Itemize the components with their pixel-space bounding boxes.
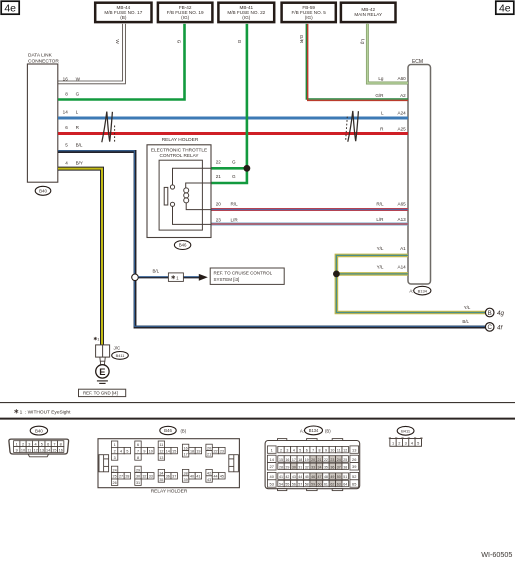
svg-text:G: G: [232, 174, 236, 179]
svg-text:19: 19: [305, 458, 309, 462]
svg-text:9: 9: [325, 449, 327, 453]
svg-text:25: 25: [113, 475, 117, 479]
svg-text:21: 21: [318, 458, 322, 462]
svg-text:30: 30: [292, 465, 296, 469]
svg-text:2: 2: [114, 450, 116, 454]
svg-text:16: 16: [285, 458, 289, 462]
svg-text:42: 42: [207, 472, 211, 476]
svg-text:Y/L: Y/L: [464, 305, 471, 310]
wire B/L branch to cruise control ref: [138, 276, 199, 279]
svg-text:31: 31: [136, 481, 140, 485]
svg-text:21: 21: [207, 453, 211, 457]
svg-text:WI-60505: WI-60505: [481, 550, 512, 559]
svg-text:40: 40: [190, 475, 194, 479]
svg-text:38: 38: [343, 465, 347, 469]
svg-text:2: 2: [22, 443, 24, 447]
svg-text:18: 18: [190, 450, 194, 454]
svg-text:Lg: Lg: [361, 39, 366, 45]
svg-text:29: 29: [285, 465, 289, 469]
svg-text:A:: A:: [409, 289, 413, 294]
grid reference 4e (top-right): [496, 1, 514, 14]
connector view B40 oval: [30, 426, 47, 435]
svg-text:11: 11: [159, 443, 163, 447]
fuse box FB-42: [158, 3, 213, 22]
svg-text:28: 28: [279, 465, 283, 469]
svg-text:A65: A65: [398, 202, 407, 207]
connector view B46 oval: [160, 426, 187, 434]
svg-text:51: 51: [343, 475, 347, 479]
connector view B46 body: [98, 439, 239, 488]
svg-text:(IG): (IG): [181, 15, 189, 20]
vertical label G (MB-41): [237, 40, 242, 44]
svg-text:A13: A13: [398, 217, 407, 222]
connector view B46 cavity clusters row 1: [111, 441, 225, 460]
relay inner box U1: [159, 160, 202, 230]
svg-text:13: 13: [352, 448, 356, 453]
svg-text:5: 5: [417, 441, 419, 446]
svg-text:8: 8: [137, 456, 139, 460]
svg-text:65: 65: [352, 481, 356, 486]
ground neck: [100, 357, 106, 365]
svg-text:L/R: L/R: [231, 217, 239, 222]
svg-text:16: 16: [184, 446, 188, 450]
svg-text:REF. TO GND [i4]: REF. TO GND [i4]: [83, 391, 118, 396]
svg-text:L/R: L/R: [376, 217, 384, 222]
svg-text:L: L: [76, 109, 79, 114]
svg-text:12: 12: [33, 448, 37, 452]
svg-text:(IG): (IG): [242, 15, 250, 20]
footnote marker box *1: [168, 273, 183, 282]
svg-text:4: 4: [35, 443, 37, 447]
svg-text:4: 4: [120, 450, 122, 454]
svg-text:52: 52: [352, 474, 356, 479]
svg-text:R/L: R/L: [231, 202, 239, 207]
svg-text:23: 23: [220, 450, 224, 454]
separator line (upper): [0, 402, 515, 404]
wire R : DLC pin 6 to ECM A25: [58, 132, 408, 135]
svg-text:8: 8: [60, 443, 62, 447]
svg-text:(IG): (IG): [305, 15, 313, 20]
connector ref oval B411: [112, 352, 129, 360]
svg-text:16: 16: [63, 77, 69, 82]
svg-text:2: 2: [398, 441, 400, 446]
svg-text:20: 20: [216, 202, 222, 207]
svg-text:RELAY HOLDER: RELAY HOLDER: [151, 489, 188, 495]
svg-text:4: 4: [293, 449, 295, 453]
wire B/Y : DLC pin 4 to joint connector B411: [58, 169, 102, 345]
svg-text:2: 2: [280, 449, 282, 453]
ref box: cruise control system: [210, 268, 284, 284]
svg-text:39: 39: [184, 478, 188, 482]
svg-text:A60: A60: [398, 76, 407, 81]
svg-text:G: G: [176, 40, 181, 44]
ECM connector ref A: B134: [409, 286, 431, 295]
svg-text:J/C: J/C: [114, 346, 122, 351]
connector view B40 cells 1-16: [14, 441, 64, 453]
svg-text:56: 56: [292, 483, 296, 487]
svg-text:3: 3: [286, 449, 288, 453]
svg-text:17: 17: [292, 458, 296, 462]
svg-text:14: 14: [46, 448, 50, 452]
svg-text:24: 24: [113, 468, 117, 472]
svg-text:10: 10: [149, 450, 153, 454]
svg-text:4e: 4e: [4, 3, 16, 15]
joint connector J/C B411: [96, 345, 110, 357]
svg-text:A2: A2: [400, 93, 406, 98]
svg-text:22: 22: [324, 458, 328, 462]
junction (open) on B/L wire: [132, 274, 139, 281]
svg-text:5: 5: [299, 449, 301, 453]
svg-text:22: 22: [216, 160, 222, 165]
svg-text:G/R: G/R: [375, 93, 384, 98]
svg-text:12: 12: [159, 450, 163, 454]
svg-text:(B): (B): [325, 429, 331, 434]
ref box: ground: [79, 389, 126, 396]
terminal B / 4g: [485, 308, 504, 317]
svg-text:13: 13: [40, 448, 44, 452]
relay armature bar: [164, 187, 168, 205]
svg-text:B/L: B/L: [462, 319, 469, 324]
svg-text:7: 7: [312, 449, 314, 453]
svg-text:A14: A14: [398, 265, 407, 270]
connector view B40 body: [9, 439, 69, 457]
svg-text:15: 15: [172, 450, 176, 454]
svg-text:10: 10: [21, 448, 25, 452]
svg-text:17: 17: [184, 453, 188, 457]
electronic throttle control relay label: [151, 147, 207, 158]
svg-text:11: 11: [337, 449, 341, 453]
svg-text:(B): (B): [120, 15, 127, 20]
fuse box MB-41: [218, 3, 274, 22]
svg-text:9: 9: [16, 448, 18, 452]
svg-text:A25: A25: [398, 126, 407, 131]
ECM pin number / wire colour labels: [375, 76, 406, 269]
svg-text:7: 7: [53, 443, 55, 447]
fuse box FB-59: [282, 3, 336, 22]
svg-text:A:: A:: [300, 429, 304, 434]
svg-text:DATA LINK: DATA LINK: [28, 53, 53, 59]
data link connector (label): [28, 53, 59, 65]
separator line (lower, heavy): [0, 418, 515, 420]
svg-text:6: 6: [47, 443, 49, 447]
svg-text:28: 28: [125, 475, 129, 479]
svg-text:4f: 4f: [497, 324, 503, 331]
svg-text:B/L: B/L: [153, 268, 160, 273]
svg-text:64: 64: [343, 483, 347, 487]
wire L : DLC pin 14 to ECM A24: [58, 117, 408, 120]
svg-text:11: 11: [27, 448, 31, 452]
svg-text:3: 3: [114, 456, 116, 460]
svg-text:27: 27: [119, 475, 123, 479]
ECM body: [408, 65, 431, 285]
vertical label Lg: [361, 39, 366, 45]
wire G : FB-42 to DLC pin 8: [58, 24, 185, 100]
connector view B411 oval: [397, 426, 414, 435]
svg-text:L: L: [381, 111, 384, 116]
svg-text:32: 32: [305, 465, 309, 469]
ground hatching: [97, 381, 108, 384]
svg-text:14: 14: [63, 109, 69, 114]
svg-text:35: 35: [159, 478, 163, 482]
svg-text:49: 49: [330, 475, 334, 479]
svg-text:44: 44: [298, 475, 302, 479]
svg-text:(B): (B): [181, 428, 187, 433]
svg-text:45: 45: [305, 475, 309, 479]
twisted-pair symbol (left, on L and R): [102, 112, 115, 143]
svg-text:23: 23: [330, 458, 334, 462]
data link connector body B40: [27, 64, 57, 182]
svg-text:54: 54: [279, 483, 283, 487]
svg-text:8: 8: [65, 91, 68, 96]
svg-text:57: 57: [298, 483, 302, 487]
svg-text:41: 41: [279, 475, 283, 479]
fuse box MB-42: [341, 3, 396, 22]
svg-text:27: 27: [270, 464, 274, 469]
twisted-pair symbol (right, on L and R): [346, 111, 359, 142]
svg-text:Lg: Lg: [378, 76, 384, 81]
svg-text:18: 18: [298, 458, 302, 462]
relay coil (pins 21-20): [184, 183, 211, 210]
DLC pin number / wire colour labels: [63, 77, 83, 166]
svg-text:43: 43: [207, 478, 211, 482]
svg-text:6: 6: [137, 443, 139, 447]
fuse box MB-44: [95, 3, 151, 22]
vertical label G (FB-42): [176, 40, 181, 44]
svg-text:A1: A1: [400, 246, 406, 251]
svg-text:55: 55: [285, 483, 289, 487]
wire L/R : relay pin 23 to ECM A13: [211, 223, 408, 226]
connector view B134 body with tabs: [265, 439, 360, 491]
relay pin labels: [216, 160, 239, 223]
svg-text:15: 15: [52, 448, 56, 452]
svg-text:35: 35: [324, 465, 328, 469]
svg-text:12: 12: [343, 449, 347, 453]
svg-text:CONTROL RELAY: CONTROL RELAY: [159, 153, 199, 158]
svg-text:R: R: [76, 125, 80, 130]
svg-text:33: 33: [149, 475, 153, 479]
svg-text:1: 1: [114, 443, 116, 447]
connector view B411 body: [389, 438, 422, 446]
svg-text:45: 45: [220, 475, 224, 479]
svg-text:16: 16: [59, 448, 63, 452]
svg-text:29: 29: [136, 468, 140, 472]
svg-text:4g: 4g: [497, 310, 504, 317]
ground E symbol: [96, 365, 109, 378]
svg-text:5: 5: [65, 142, 68, 147]
svg-text:1: 1: [392, 441, 394, 446]
svg-text:59: 59: [311, 483, 315, 487]
svg-text:43: 43: [292, 475, 296, 479]
svg-text:B134: B134: [418, 288, 428, 293]
footnote: *1 WITHOUT EyeSight: [14, 409, 71, 415]
svg-text:61: 61: [324, 483, 328, 487]
svg-text:13: 13: [159, 456, 163, 460]
svg-text:34: 34: [159, 472, 163, 476]
vertical label G/R: [299, 35, 304, 44]
svg-text:ELECTRONIC THROTTLE: ELECTRONIC THROTTLE: [151, 147, 207, 152]
svg-text:48: 48: [324, 475, 328, 479]
svg-text:9: 9: [143, 450, 145, 454]
connector view B134 middle cavities: [278, 446, 349, 486]
svg-text:36: 36: [330, 465, 334, 469]
connector view B134 side cavities: [267, 446, 358, 487]
svg-text:37: 37: [337, 465, 341, 469]
svg-text:14: 14: [166, 450, 170, 454]
relay contact (pins 22-23): [170, 168, 211, 224]
svg-text:50: 50: [337, 475, 341, 479]
svg-text:42: 42: [285, 475, 289, 479]
svg-text:22: 22: [213, 450, 217, 454]
svg-text:4e: 4e: [499, 3, 511, 15]
svg-text:37: 37: [172, 475, 176, 479]
arrow to cruise control ref: [199, 274, 208, 281]
svg-text:E: E: [99, 367, 105, 377]
svg-text:1: 1: [97, 336, 99, 341]
svg-text:39: 39: [352, 464, 356, 469]
svg-text:47: 47: [318, 475, 322, 479]
svg-text:24: 24: [337, 458, 341, 462]
svg-text:5: 5: [41, 443, 43, 447]
svg-text:G: G: [237, 40, 242, 44]
svg-text:R/L: R/L: [376, 202, 384, 207]
svg-text:62: 62: [330, 483, 334, 487]
svg-text:36: 36: [166, 475, 170, 479]
wire R/L : relay pin 20 to ECM A65: [211, 208, 408, 211]
svg-text:8: 8: [319, 449, 321, 453]
svg-text:20: 20: [207, 446, 211, 450]
svg-text:60: 60: [318, 483, 322, 487]
connector ref oval B46: [174, 241, 190, 250]
svg-text:1 : WITHOUT EyeSight: 1 : WITHOUT EyeSight: [20, 409, 71, 415]
grid reference 4e (top-left): [1, 1, 19, 14]
svg-text:21: 21: [216, 174, 222, 179]
svg-text:58: 58: [305, 483, 309, 487]
svg-text:4: 4: [65, 161, 68, 166]
connector view A: B134 oval: [300, 426, 331, 435]
svg-text:B/L: B/L: [76, 142, 83, 147]
svg-text:RELAY HOLDER: RELAY HOLDER: [162, 137, 199, 143]
svg-text:B134: B134: [309, 428, 319, 433]
svg-text:Y/L: Y/L: [377, 246, 384, 251]
svg-text:B46: B46: [179, 243, 187, 248]
svg-text:53: 53: [270, 481, 274, 486]
wire G/R : FB-59 to ECM A2: [306, 24, 408, 101]
svg-text:20: 20: [311, 458, 315, 462]
svg-text:63: 63: [337, 483, 341, 487]
svg-text:33: 33: [311, 465, 315, 469]
connector view B46 cavity clusters row 2: [111, 466, 225, 485]
svg-text:3: 3: [28, 443, 30, 447]
svg-text:B40: B40: [39, 189, 47, 194]
svg-text:B/Y: B/Y: [76, 161, 83, 166]
wire B/L : DLC pin 5 to joint and terminal C: [58, 151, 485, 327]
svg-text:6: 6: [306, 449, 308, 453]
svg-text:W: W: [76, 77, 81, 82]
svg-text:25: 25: [343, 458, 347, 462]
connector ref oval B40: [35, 186, 51, 195]
svg-text:B411: B411: [116, 353, 125, 358]
svg-text:31: 31: [298, 465, 302, 469]
svg-text:A24: A24: [398, 111, 407, 116]
vertical label W: [115, 39, 120, 44]
wire W : MB-44 to DLC pin 16: [58, 24, 125, 84]
wire Y/L : ECM A1/A14 to terminal B: [336, 255, 485, 312]
svg-text:32: 32: [142, 475, 146, 479]
junction dot (Y/L): [333, 271, 340, 278]
svg-text:23: 23: [216, 217, 222, 222]
svg-text:G: G: [76, 91, 80, 96]
svg-text:R: R: [380, 126, 384, 131]
svg-text:46: 46: [311, 475, 315, 479]
svg-text:1: 1: [16, 443, 18, 447]
svg-text:41: 41: [196, 475, 200, 479]
svg-text:G/R: G/R: [299, 35, 304, 44]
svg-text:Y/L: Y/L: [377, 265, 384, 270]
footnote marker *1 (at J/C): [94, 336, 100, 341]
svg-text:26: 26: [352, 457, 356, 462]
relay holder outer box: [147, 145, 211, 238]
svg-text:C: C: [487, 324, 492, 331]
svg-text:REF. TO CRUISE CONTROL: REF. TO CRUISE CONTROL: [214, 271, 273, 276]
svg-text:3: 3: [405, 441, 407, 446]
svg-text:SYSTEM [i3]: SYSTEM [i3]: [214, 277, 240, 282]
svg-text:B46: B46: [164, 428, 172, 433]
svg-text:B40: B40: [35, 428, 43, 433]
svg-text:26: 26: [113, 481, 117, 485]
svg-text:B: B: [488, 310, 492, 317]
svg-text:5: 5: [126, 450, 128, 454]
svg-text:10: 10: [330, 449, 334, 453]
svg-text:B411: B411: [401, 429, 411, 434]
svg-text:19: 19: [196, 450, 200, 454]
svg-text:6: 6: [65, 125, 68, 130]
svg-text:MAIN RELAY: MAIN RELAY: [354, 12, 382, 17]
terminal C / 4f: [485, 323, 503, 332]
svg-text:7: 7: [137, 450, 139, 454]
wire G : MB-41 to relay pins 22/21: [211, 24, 247, 183]
svg-text:44: 44: [213, 475, 217, 479]
wire Lg : MB-42 main relay to ECM A60: [367, 24, 408, 83]
svg-text:38: 38: [184, 472, 188, 476]
svg-text:30: 30: [136, 475, 140, 479]
svg-text:W: W: [115, 39, 120, 44]
svg-text:G: G: [232, 160, 236, 165]
junction dot (green): [244, 165, 251, 172]
svg-text:1: 1: [271, 448, 273, 453]
svg-text:34: 34: [318, 465, 322, 469]
svg-text:15: 15: [279, 458, 283, 462]
